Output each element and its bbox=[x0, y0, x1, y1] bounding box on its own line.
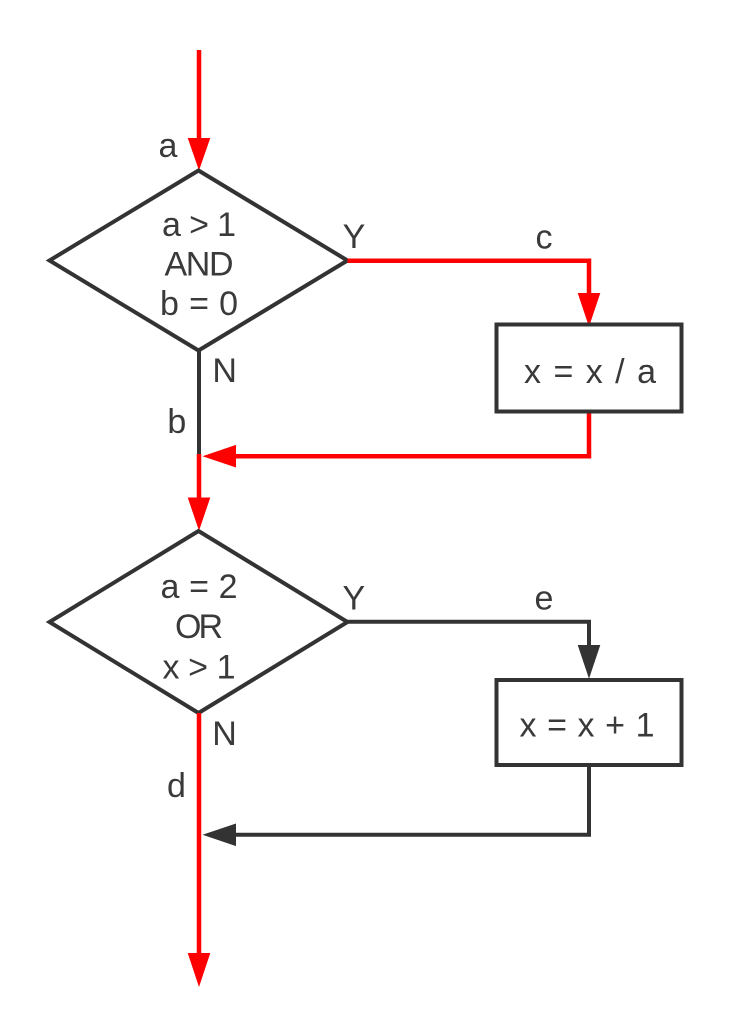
svg-text:d: d bbox=[167, 767, 186, 805]
wire: red yes-branch c from D1 right vertex to box P1 bbox=[348, 261, 590, 296]
svg-text:Y: Y bbox=[343, 218, 366, 256]
arrowhead: red into D2 top vertex bbox=[188, 498, 211, 531]
svg-text:a > 1: a > 1 bbox=[162, 206, 236, 244]
svg-text:c: c bbox=[536, 219, 553, 257]
decision D2: a=2 OR x>1 bbox=[50, 531, 348, 713]
svg-text:x = x / a: x = x / a bbox=[524, 353, 656, 391]
process box P1: x = x / a bbox=[497, 325, 682, 412]
svg-text:N: N bbox=[212, 715, 237, 753]
svg-text:a = 2: a = 2 bbox=[161, 568, 238, 606]
wire: red edge from J1 into decision D2 bbox=[197, 454, 202, 501]
wire: red exit edge from D2 bottom vertex through J2 to bottom bbox=[197, 713, 202, 956]
svg-text:N: N bbox=[212, 352, 237, 390]
svg-text:e: e bbox=[535, 580, 554, 618]
svg-text:x = x + 1: x = x + 1 bbox=[520, 707, 655, 745]
decision D1: a>1 AND b=0 bbox=[50, 171, 348, 351]
svg-text:Y: Y bbox=[342, 580, 365, 618]
arrowhead: dark edge e into box P2 top bbox=[578, 645, 601, 679]
svg-text:b: b bbox=[167, 403, 186, 441]
arrowhead: red left-pointing arrow at junction J1 bbox=[203, 445, 237, 468]
svg-text:x > 1: x > 1 bbox=[163, 649, 236, 687]
arrowhead: red edge c into box P1 top bbox=[578, 293, 601, 327]
svg-text:b = 0: b = 0 bbox=[160, 285, 238, 323]
wire: dark no-branch from D1 bottom vertex to junction J1 bbox=[197, 351, 201, 457]
arrowhead: dark left-pointing arrow at junction J2 bbox=[203, 824, 237, 847]
wire: dark return edge d from P2 bottom to junction J2 bbox=[235, 767, 589, 835]
wire: dark yes-branch e from D2 right vertex to box P2 bbox=[348, 622, 590, 648]
arrowhead: red entry edge into D1 top vertex bbox=[188, 138, 211, 171]
process box P2: x = x + 1 bbox=[497, 680, 682, 765]
arrowhead: red exit arrow at bottom bbox=[188, 953, 211, 987]
svg-text:AND: AND bbox=[165, 246, 234, 284]
D1 condition text bbox=[160, 206, 238, 323]
svg-text:a: a bbox=[159, 127, 178, 165]
wire: red entry edge a into decision D1 bbox=[197, 50, 202, 142]
svg-text:OR: OR bbox=[175, 608, 223, 646]
D2 condition text bbox=[161, 568, 238, 687]
wire: red return edge b from P1 bottom to junction J1 bbox=[235, 414, 589, 457]
